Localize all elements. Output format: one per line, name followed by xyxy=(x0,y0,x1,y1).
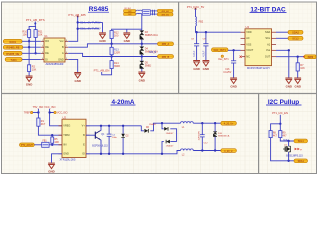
node junction R5 xyxy=(51,134,53,136)
wire U1 gnd xyxy=(68,59,78,72)
resistor R4 xyxy=(124,13,136,16)
svg-text:SDA: SDA xyxy=(265,31,270,34)
node junction xyxy=(288,49,290,51)
svg-text:XTR115U,2K5: XTR115U,2K5 xyxy=(60,158,77,161)
port I2C_SCL xyxy=(294,139,308,143)
svg-text:4.7uF: 4.7uF xyxy=(203,50,206,57)
svg-text:8: 8 xyxy=(66,40,67,42)
resistor R15 yellow xyxy=(303,55,316,59)
svg-text:10K: 10K xyxy=(300,67,305,70)
wire R10 rail down xyxy=(28,37,30,64)
node A junctions xyxy=(110,55,143,57)
diode D6 xyxy=(141,123,159,133)
svg-text:10K: 10K xyxy=(38,34,43,37)
wire SCL xyxy=(276,37,288,39)
svg-text:VDD: VDD xyxy=(246,31,251,34)
transistor Q3 mosfet xyxy=(283,144,303,158)
node junction xyxy=(51,144,53,146)
wire R14 hook xyxy=(102,69,112,75)
capacitor C16 flag xyxy=(78,27,101,31)
svg-text:NC: NC xyxy=(246,56,250,59)
wire U2 gnd xyxy=(52,154,63,163)
resistor R10 xyxy=(22,30,30,38)
svg-text:10R: 10R xyxy=(128,14,132,16)
resistor R13 xyxy=(110,44,120,57)
ground xyxy=(26,76,33,86)
svg-text:T5V_ISO: T5V_ISO xyxy=(33,105,44,109)
capacitor C4 xyxy=(107,126,118,154)
svg-text:TxD1: TxD1 xyxy=(10,58,17,62)
svg-text:VCC_ISO: VCC_ISO xyxy=(44,105,55,109)
node junction xyxy=(287,160,289,162)
svg-text:U4: U4 xyxy=(246,25,250,29)
net label PT1_AB_RTS xyxy=(26,18,45,25)
diode D8 xyxy=(162,140,177,154)
svg-text:485_B1: 485_B1 xyxy=(161,15,169,17)
node bottom rail junctions xyxy=(201,149,216,151)
port 485_A xyxy=(158,42,174,46)
section divider vertical 4-20mA/I2C xyxy=(258,94,260,174)
wire T5V stem xyxy=(37,109,39,118)
svg-text:485_A: 485_A xyxy=(162,42,170,46)
svg-text:FB2: FB2 xyxy=(199,21,204,24)
wire DAC_OUT to VOUT xyxy=(228,49,241,51)
svg-text:SDA1: SDA1 xyxy=(298,160,305,163)
resistor R9 xyxy=(279,131,288,138)
wire bottom rail xyxy=(86,151,181,154)
svg-text:120R: 120R xyxy=(114,51,120,54)
wire TREF to R1 xyxy=(33,112,39,114)
svg-text:V+: V+ xyxy=(82,125,86,128)
wire Vcc riser xyxy=(68,17,78,42)
wire V+ rail xyxy=(86,125,141,127)
node top rail junctions xyxy=(201,122,216,124)
port PT1_AOUT xyxy=(20,143,35,147)
svg-text:SDA2: SDA2 xyxy=(292,31,299,35)
pin Dac_INT1 xyxy=(218,55,229,61)
svg-text:4K7: 4K7 xyxy=(283,135,288,137)
node junction xyxy=(287,140,289,142)
wire Vss to gnd xyxy=(276,50,289,77)
resistor R3 xyxy=(124,8,136,13)
svg-text:VOUT: VOUT xyxy=(246,49,253,52)
svg-text:MCP4725A0T-E/CH: MCP4725A0T-E/CH xyxy=(247,67,270,70)
wire VCC_ISO xyxy=(50,109,62,126)
svg-text:RS485_RE: RS485_RE xyxy=(7,46,20,50)
svg-text:7: 7 xyxy=(66,46,67,48)
wire L1 to port xyxy=(193,122,221,124)
port SCL2 xyxy=(288,36,303,40)
svg-text:RxD1: RxD1 xyxy=(9,40,16,44)
wire into Q3 top xyxy=(288,141,290,144)
wire FB1 to IIN xyxy=(49,144,62,146)
svg-text:PT1_I2C_EN: PT1_I2C_EN xyxy=(272,111,288,115)
section divider vertical RS485/DAC xyxy=(178,2,180,94)
node B junctions xyxy=(110,43,143,45)
node Q1 junctions xyxy=(100,125,102,155)
svg-text:DE: DE xyxy=(45,52,49,55)
wire B line xyxy=(68,44,157,47)
capacitor C8 xyxy=(191,32,199,60)
svg-text:1uF/100V: 1uF/100V xyxy=(199,130,201,140)
svg-text:C16_+5V TVR5V: C16_+5V TVR5V xyxy=(80,27,101,31)
svg-text:4K7: 4K7 xyxy=(273,135,278,137)
svg-text:C14_+5V TVR5V: C14_+5V TVR5V xyxy=(80,20,101,24)
transistor Q1 xyxy=(86,126,108,154)
node +5V junction 1 xyxy=(77,21,79,23)
resistor R11 xyxy=(34,30,43,38)
svg-text:49R9: 49R9 xyxy=(307,56,313,59)
wire R12 bottom xyxy=(111,39,113,44)
diode D3 TVS xyxy=(140,29,158,44)
svg-text:4: 4 xyxy=(42,58,43,60)
svg-text:VCC_ISO: VCC_ISO xyxy=(57,112,68,115)
op-amp U1 ADM3485ARZ xyxy=(41,34,68,66)
ground xyxy=(203,61,210,71)
diode D5 TVS xyxy=(140,57,152,72)
wire R11 down xyxy=(35,37,37,53)
port TxD1 xyxy=(5,58,22,62)
svg-text:390R: 390R xyxy=(114,65,120,68)
svg-text:1N4007: 1N4007 xyxy=(149,124,157,126)
op-amp U2 XTR115 xyxy=(59,115,90,161)
svg-text:10K: 10K xyxy=(32,69,37,72)
node RxD junction xyxy=(28,40,30,42)
svg-text:RS485_DE: RS485_DE xyxy=(6,52,19,56)
port RS485_RE xyxy=(3,45,23,49)
svg-text:3: 3 xyxy=(42,52,43,54)
sheet frame xyxy=(2,2,317,174)
svg-text:OUT: OUT xyxy=(265,56,271,59)
port I2C_SDA xyxy=(294,159,308,163)
title 4-20mA xyxy=(111,99,136,106)
svg-text:5: 5 xyxy=(66,58,67,60)
ground xyxy=(285,78,292,88)
resistor R7 xyxy=(296,57,305,78)
wire A line xyxy=(68,53,157,56)
wire DE xyxy=(22,52,41,54)
wire R2 to ground xyxy=(28,72,30,76)
svg-text:RO: RO xyxy=(45,40,49,43)
wire DI xyxy=(22,58,41,60)
node cap junctions xyxy=(195,31,207,33)
wire to gnd3 xyxy=(102,22,104,32)
node D2 junctions xyxy=(122,125,124,155)
svg-text:SMBJ36CA: SMBJ36CA xyxy=(218,135,230,138)
inductor FB2 xyxy=(196,17,204,26)
wire top loop rail xyxy=(159,122,181,124)
svg-text:SCL2: SCL2 xyxy=(292,37,299,41)
transformer CMC xyxy=(142,10,150,15)
node C4 junctions xyxy=(108,125,110,155)
capacitor chain xyxy=(150,10,157,15)
svg-text:1: 1 xyxy=(42,40,43,42)
pin TREF xyxy=(24,111,33,114)
svg-text:TREF: TREF xyxy=(24,112,31,115)
node junction xyxy=(48,111,50,113)
resistor R5 xyxy=(51,135,59,145)
node +5V junction 2 xyxy=(77,28,79,30)
wire OUT row xyxy=(276,56,305,58)
resistor R8 xyxy=(269,131,278,138)
capacitor C9 xyxy=(203,32,209,60)
svg-text:10K: 10K xyxy=(23,34,28,37)
svg-text:SDA1: SDA1 xyxy=(283,138,289,141)
svg-text:IIN: IIN xyxy=(63,144,66,147)
svg-text:RE: RE xyxy=(45,46,49,49)
capacitor C16 xyxy=(223,50,236,77)
svg-text:Dac_INT1: Dac_INT1 xyxy=(218,59,229,61)
ground xyxy=(74,73,81,83)
pin VCC_ISO xyxy=(54,111,68,114)
wire port to FB1 xyxy=(34,144,41,146)
inductor L1 xyxy=(181,122,194,130)
ground xyxy=(99,33,106,43)
resistor R14 xyxy=(110,57,120,69)
wire chain to D3 xyxy=(141,14,143,29)
wire R1 to TRIM row xyxy=(38,126,62,135)
node ladder bottom xyxy=(161,153,163,155)
sheet background xyxy=(0,0,320,179)
port LOOP- xyxy=(221,149,237,153)
section divider horizontal xyxy=(2,93,317,95)
node ladder top xyxy=(161,122,163,124)
svg-text:VSS: VSS xyxy=(246,44,251,47)
svg-text:6: 6 xyxy=(66,52,67,54)
port LOOP+ xyxy=(221,121,237,125)
inductor L2 xyxy=(181,149,194,156)
wire R10/R11 top bus xyxy=(29,26,35,29)
diode D10 TVS xyxy=(213,123,230,150)
svg-text:SMBJ: SMBJ xyxy=(145,65,152,68)
resistor R1 xyxy=(37,118,46,126)
svg-text:4.7uF: 4.7uF xyxy=(193,50,196,57)
svg-text:10R: 10R xyxy=(54,141,59,144)
svg-text:SCL: SCL xyxy=(265,37,270,40)
ground xyxy=(138,72,145,82)
title RS485 xyxy=(88,6,109,13)
port 485_B xyxy=(149,51,174,59)
ground xyxy=(123,29,130,43)
title I2C Pullup xyxy=(266,99,302,106)
port RxD1 xyxy=(3,39,22,43)
port SDA2 xyxy=(288,30,303,34)
port RS485_DE xyxy=(3,51,22,55)
svg-text:100n: 100n xyxy=(112,137,118,139)
svg-text:BCP56-16,115: BCP56-16,115 xyxy=(92,145,108,148)
wire into Q3 bottom xyxy=(288,154,290,161)
node junction xyxy=(37,111,39,113)
svg-text:1N4007: 1N4007 xyxy=(166,146,174,148)
node junction C16 xyxy=(232,49,234,51)
svg-text:4_20_V+: 4_20_V+ xyxy=(224,123,234,126)
resistor R12 xyxy=(110,31,119,39)
svg-text:0.1/25V: 0.1/25V xyxy=(223,72,231,74)
wire L2 to port xyxy=(193,150,221,152)
pin nc cross xyxy=(240,56,242,58)
resistor R2 xyxy=(28,65,37,72)
ferrite FB1 xyxy=(42,141,49,148)
svg-text:BSS138PS,115: BSS138PS,115 xyxy=(286,154,303,157)
svg-text:485_B: 485_B xyxy=(149,51,157,54)
svg-text:IO: IO xyxy=(82,153,85,156)
wire label to FB2 xyxy=(195,9,197,17)
port DAC_OUT1 xyxy=(212,48,229,52)
diode D7 xyxy=(162,123,177,141)
svg-text:GND: GND xyxy=(63,153,69,156)
wire label stem xyxy=(279,115,281,124)
wire label stem xyxy=(34,22,36,27)
svg-text:485_A1: 485_A1 xyxy=(161,10,169,13)
svg-text:SCL1: SCL1 xyxy=(298,140,305,143)
wire SDA xyxy=(276,31,288,33)
svg-text:ADM3485ARZ: ADM3485ARZ xyxy=(45,62,63,66)
node junction xyxy=(279,123,281,125)
svg-text:1N4007: 1N4007 xyxy=(166,133,174,135)
ground xyxy=(48,163,55,173)
svg-text:DAC_OUT1: DAC_OUT1 xyxy=(214,49,227,52)
ground xyxy=(193,61,200,71)
wire RxD1 xyxy=(22,40,41,42)
capacitor C14 flag xyxy=(78,20,103,24)
net label PT1_DAC_DIR xyxy=(187,5,205,10)
wire RE xyxy=(23,46,41,48)
svg-text:SMBJ5.0CA: SMBJ5.0CA xyxy=(145,34,158,37)
svg-text:PT1_AOUT: PT1_AOUT xyxy=(21,144,33,147)
diode D4 TVS xyxy=(140,44,158,57)
svg-text:DI: DI xyxy=(45,58,48,61)
ground xyxy=(294,78,301,88)
ground xyxy=(230,78,237,88)
inductor choke top xyxy=(136,10,142,14)
svg-text:PT1_AB_EN: PT1_AB_EN xyxy=(94,68,110,72)
svg-text:GND: GND xyxy=(58,58,64,61)
svg-text:1K0: 1K0 xyxy=(114,35,119,38)
node RE junction xyxy=(28,46,30,48)
svg-text:2: 2 xyxy=(42,46,43,48)
capacitor C12 xyxy=(199,123,209,150)
port 485B- xyxy=(157,13,173,17)
wire R12 top bus xyxy=(112,29,142,30)
op-amp U4 MCP4725 xyxy=(241,25,277,70)
node DE junction xyxy=(34,52,36,54)
node junction R7 xyxy=(297,56,299,58)
svg-text:PT1_AB_RTS: PT1_AB_RTS xyxy=(26,18,45,22)
svg-text:4_20_V-: 4_20_V- xyxy=(224,150,233,153)
diode D2 xyxy=(121,126,129,154)
port 485A+ xyxy=(157,9,173,13)
wire T branch xyxy=(271,124,281,131)
svg-text:485_B: 485_B xyxy=(162,55,170,59)
svg-text:U1: U1 xyxy=(44,34,48,38)
title 12-BIT DAC xyxy=(250,6,287,13)
svg-text:TRIM: TRIM xyxy=(63,134,69,137)
svg-text:4K7: 4K7 xyxy=(41,123,46,126)
wire R9 to SCL row xyxy=(280,138,294,141)
svg-text:VREG: VREG xyxy=(63,125,70,128)
wire R8 down-around xyxy=(271,138,294,161)
wire FB2 to VDD rail xyxy=(196,26,241,32)
net label PT1_AB_485 xyxy=(68,13,86,18)
